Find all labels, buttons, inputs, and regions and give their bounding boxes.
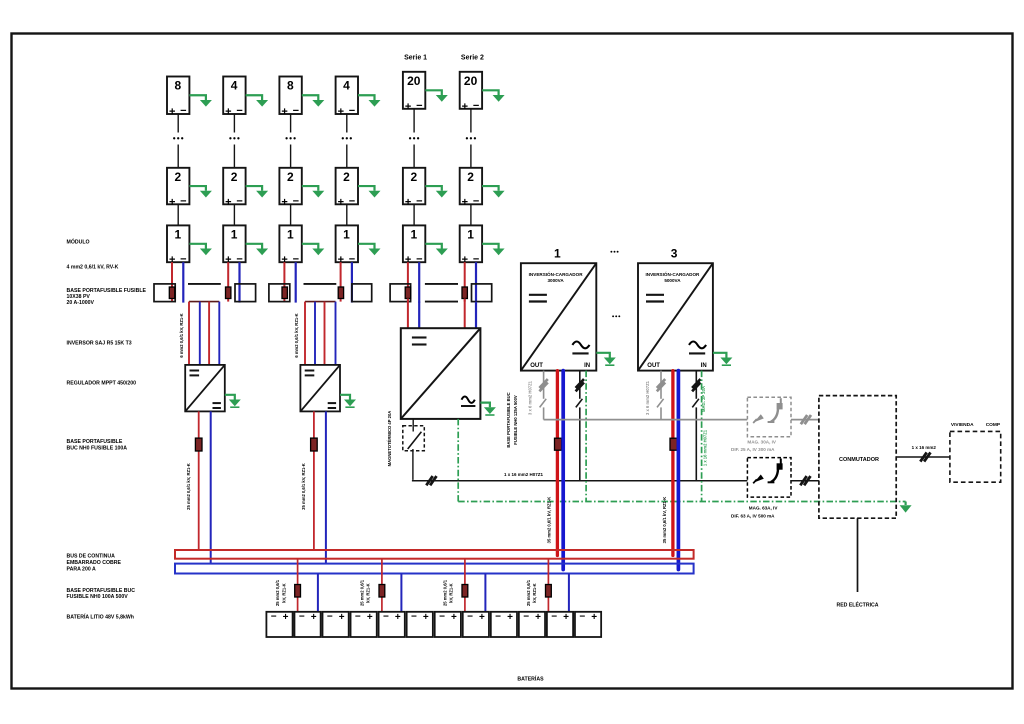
svg-text:+: +	[563, 612, 569, 623]
battery B12 (litio 48V)	[575, 612, 601, 637]
cable mark on AC line (left)	[426, 476, 436, 485]
ellipsis dots string 3	[285, 137, 295, 139]
ground arrow of module string3 #1	[302, 244, 325, 255]
wire positive (red) string 6 to fuse base	[464, 262, 466, 301]
svg-text:6 mm2 0,6/1 kV, RZ1-K: 6 mm2 0,6/1 kV, RZ1-K	[294, 313, 299, 357]
breaker glyph inside Q1 magnetotermico-diferencial (inverters)	[768, 398, 783, 422]
svg-text:+: +	[311, 612, 317, 623]
battery B4 (litio 48V)	[351, 612, 377, 637]
svg-text:4: 4	[343, 79, 350, 93]
svg-text:IN: IN	[584, 363, 590, 369]
svg-text:−: −	[271, 612, 277, 623]
svg-text:+: +	[338, 106, 344, 118]
svg-text:BASE PORTAFUSIBLE BUC: BASE PORTAFUSIBLE BUC	[506, 392, 511, 447]
svg-text:−: −	[439, 612, 445, 623]
svg-text:4: 4	[231, 79, 238, 93]
wire black line through breaker to conmutador	[791, 480, 819, 482]
wire bundle group 1 (6 mm2) to regulator	[189, 302, 219, 365]
battery positive wire 3	[464, 559, 466, 612]
svg-text:INVERSOR SAJ R5 15K T3: INVERSOR SAJ R5 15K T3	[67, 341, 132, 347]
svg-text:+: +	[423, 612, 429, 623]
battery B9 (litio 48V)	[491, 612, 517, 637]
svg-text:Serie 2: Serie 2	[461, 55, 484, 62]
wire dots-module2 string 5	[413, 145, 415, 168]
cable mark on AC in of U-IC1 inversor-cargador 1	[576, 379, 584, 391]
svg-text:MAGNETOTÉRMICO 4P 20A: MAGNETOTÉRMICO 4P 20A	[387, 411, 392, 467]
svg-text:−: −	[416, 196, 422, 208]
left label BUS DE CONTINUA	[67, 554, 122, 573]
PV module string5 top (20)	[403, 72, 425, 113]
ground arrow of module string3 #2	[302, 186, 325, 197]
U-IC1 inversor-cargador 1	[521, 263, 596, 370]
PV module string3 #2	[279, 168, 301, 209]
cable label 6 mm2 bundle 2	[294, 313, 299, 357]
svg-text:+: +	[169, 196, 175, 208]
battery negative wire 1	[317, 574, 319, 612]
svg-text:RED ELÉCTRICA: RED ELÉCTRICA	[836, 601, 878, 609]
svg-text:+: +	[451, 612, 457, 623]
wire conmutador to vivienda	[896, 456, 950, 458]
wire positive (red) string 1 to fuse base	[171, 262, 173, 301]
wire negative (blue) string 1	[182, 262, 184, 302]
left label BASE PORTAFUSIBLE BUC	[67, 588, 136, 600]
cable label 6 mm2 bundle 1	[179, 313, 184, 357]
svg-text:35 mm2 0,6/1 kV, RZ1-K: 35 mm2 0,6/1 kV, RZ1-K	[547, 497, 552, 544]
svg-text:+: +	[462, 196, 468, 208]
ground arrow of U-REG2 regulador MPPT 2	[340, 395, 356, 407]
svg-text:6 mm2 0,6/1 kV, RZ1-K: 6 mm2 0,6/1 kV, RZ1-K	[179, 313, 184, 357]
svg-text:+: +	[507, 612, 513, 623]
svg-text:REGULADOR MPPT 450/200: REGULADOR MPPT 450/200	[67, 380, 137, 386]
OUT terminal label of U-IC1 inversor-cargador 1	[530, 363, 543, 369]
designator 1 of U-IC1 inversor-cargador 1	[554, 246, 561, 260]
svg-text:−: −	[383, 612, 389, 623]
wire module string 5 row1-dots	[413, 109, 415, 133]
left label BATERIA LITIO 48V 5,8kWh	[67, 612, 134, 620]
fuse 10X38 PV of group 1 left string	[169, 287, 174, 299]
wire battery negative from U-REG1 regulador MPPT 1	[210, 411, 212, 563]
svg-text:FUSIBLE NH0 125A 500V: FUSIBLE NH0 125A 500V	[513, 395, 518, 445]
wire module string 3 row1-dots	[290, 114, 292, 133]
cable label 35 mm2 battery wires of U-IC3 inversor-cargador 3	[662, 497, 667, 544]
svg-text:BASE PORTAFUSIBLE FUSIBLE: BASE PORTAFUSIBLE FUSIBLE	[67, 288, 147, 294]
svg-text:−: −	[293, 196, 299, 208]
IN terminal label of U-IC1 inversor-cargador 1	[584, 363, 590, 369]
svg-text:−: −	[180, 105, 186, 117]
ground arrow of module string6 top (20)	[482, 90, 505, 101]
fuse base band group 3 (BASE PORTAFUSIBLE 10X38 PV)	[390, 284, 492, 302]
PV module string6 #2	[460, 168, 482, 209]
svg-text:1: 1	[467, 227, 474, 241]
contact arrow inside Q1 magnetotermico-diferencial (inverters)	[753, 414, 764, 423]
IN terminal label of U-IC3 inversor-cargador 3	[701, 363, 707, 369]
wire dots-module2 string 6	[470, 145, 472, 168]
wire dots-module2 string 1	[177, 145, 179, 168]
left label BASE PORTAFUSIBLE FUSIBLE	[67, 288, 147, 306]
Q2 magnetotermico-diferencial (red) (dashed box)	[747, 458, 791, 498]
ground arrow of module string1 top (8)	[189, 95, 212, 106]
battery fuse NH0 1	[295, 585, 301, 598]
PV module string2 top (4)	[223, 77, 245, 119]
svg-text:+: +	[338, 196, 344, 208]
svg-text:BATERÍA LITIO 48V 5,8kWh: BATERÍA LITIO 48V 5,8kWh	[67, 612, 134, 620]
battery B11 (litio 48V)	[547, 612, 573, 637]
svg-text:25 mm2 0,6/1: 25 mm2 0,6/1	[275, 579, 280, 606]
fuse base band group 1 (BASE PORTAFUSIBLE 10X38 PV)	[154, 284, 256, 302]
svg-text:PARA 200 A: PARA 200 A	[67, 566, 96, 572]
ground arrow of U-IC3 inversor-cargador 3	[713, 353, 733, 365]
cable label battery string 4	[526, 579, 537, 606]
wire negative (blue) string 5	[418, 262, 420, 302]
svg-text:MÓDULO: MÓDULO	[67, 237, 90, 245]
U-IC3 inversor-cargador 3	[638, 263, 713, 370]
svg-text:OUT: OUT	[530, 363, 543, 369]
fuse NH0 on positive of U-REG2 regulador MPPT 2	[311, 438, 318, 451]
cable mark gray before conmutador	[801, 415, 811, 424]
fuse 10X38 PV of group 2 left string	[282, 287, 287, 299]
cable label 3 x 6 mm2 of U-IC1 inversor-cargador 1	[528, 380, 533, 415]
Q1 magnetotermico-diferencial (inverters) (dashed box)	[747, 397, 791, 437]
wire positive (red) string 4 to fuse base	[340, 262, 342, 301]
svg-text:2: 2	[467, 170, 474, 184]
svg-text:2: 2	[343, 170, 350, 184]
svg-text:−: −	[327, 612, 333, 623]
svg-text:FUSIBLE NH0 100A 500V: FUSIBLE NH0 100A 500V	[67, 594, 129, 600]
fuse 10X38 PV of group 2 right string	[338, 287, 343, 299]
svg-text:+: +	[225, 196, 231, 208]
ground arrow of module string5 top (20)	[425, 90, 448, 101]
left label BASE PORTAFUSIBLE	[67, 439, 128, 451]
battery negative wire 2	[400, 574, 402, 612]
string title Serie 1	[404, 55, 427, 62]
PV module string1 #2	[167, 168, 189, 209]
wire module2-module1 string 6	[470, 204, 472, 225]
svg-text:+: +	[281, 106, 287, 118]
earth wire (green dash-dot) from inverter SAJ	[457, 419, 459, 502]
svg-text:25 mm2 0,6/1: 25 mm2 0,6/1	[359, 579, 364, 606]
svg-text:20: 20	[407, 74, 421, 88]
svg-text:−: −	[180, 196, 186, 208]
svg-text:+: +	[462, 101, 468, 113]
fuse NH0 125A on positive of U-IC1 inversor-cargador 1	[555, 438, 562, 450]
svg-text:IN: IN	[701, 363, 707, 369]
earth bus horizontal (green dash-dot)	[458, 501, 905, 503]
label BASE PORTAFUSIBLE BUC FUSIBLE NH0 125A 500V	[506, 392, 518, 447]
ground arrow of U-IC1 inversor-cargador 1	[596, 353, 616, 365]
svg-text:+: +	[405, 101, 411, 113]
svg-text:5000VA: 5000VA	[664, 278, 681, 283]
svg-text:BATERÍAS: BATERÍAS	[517, 675, 544, 683]
fuse 10X38 PV of group 3 right string	[462, 287, 467, 299]
wire negative (blue) string 3	[295, 262, 297, 302]
battery negative wire 3	[484, 574, 486, 612]
label text inside U-IC3 inversor-cargador 3	[646, 270, 701, 283]
svg-text:3000VA: 3000VA	[547, 278, 564, 283]
wire module2-module1 string 1	[177, 204, 179, 225]
ground arrow of module string4 #2	[358, 186, 381, 197]
battery B3 (litio 48V)	[323, 612, 349, 637]
wire serie2 red to inverter	[464, 299, 466, 329]
fuse 10X38 PV of group 3 left string	[405, 287, 410, 299]
battery fuse NH0 4	[546, 585, 552, 598]
PV module string6 #1	[460, 225, 482, 266]
wire to RED ELECTRICA (grid)	[857, 518, 859, 592]
svg-text:3: 3	[671, 246, 678, 260]
wire dots-module2 string 4	[346, 145, 348, 168]
svg-text:−: −	[495, 612, 501, 623]
OUT terminal label of U-IC3 inversor-cargador 3	[647, 363, 660, 369]
label VIVIENDA	[951, 422, 974, 428]
svg-text:DIF. 63 A, IV 500 mA: DIF. 63 A, IV 500 mA	[731, 513, 775, 518]
svg-text:−: −	[355, 612, 361, 623]
svg-text:−: −	[473, 100, 479, 112]
left label MODULO	[67, 237, 90, 245]
fuse NH0 on positive of U-REG1 regulador MPPT 1	[195, 438, 202, 451]
PV module string2 #1	[223, 225, 245, 266]
svg-text:INVERSIÓN-CARGADOR: INVERSIÓN-CARGADOR	[529, 270, 584, 277]
wire inverter AC out to breaker	[412, 419, 414, 432]
wire module2-module1 string 5	[413, 204, 415, 225]
svg-text:EMBARRADO COBRE: EMBARRADO COBRE	[67, 560, 122, 566]
wire module string 4 row1-dots	[346, 114, 348, 133]
fuse NH0 125A on positive of U-IC3 inversor-cargador 3	[670, 438, 677, 450]
battery positive wire 1	[297, 559, 299, 612]
wire battery positive from U-REG1 regulador MPPT 1	[198, 411, 200, 550]
svg-text:Serie 1: Serie 1	[404, 55, 427, 62]
negative DC busbar (copper, blue)	[175, 564, 694, 574]
ellipsis dots string 1	[173, 137, 183, 139]
battery B1 (litio 48V)	[266, 612, 292, 637]
ellipsis dots string 6	[466, 137, 476, 139]
ground arrow of module string2 #1	[246, 244, 269, 255]
svg-text:BUS DE CONTINUA: BUS DE CONTINUA	[67, 554, 116, 560]
wire battery positive from U-REG2 regulador MPPT 2	[313, 411, 315, 550]
wire gray bus through breaker to conmutador	[791, 419, 819, 421]
battery positive wire 4	[547, 559, 549, 612]
svg-text:+: +	[395, 612, 401, 623]
svg-text:+: +	[405, 196, 411, 208]
svg-text:2: 2	[410, 170, 417, 184]
ground arrow of module string3 top (8)	[302, 95, 325, 106]
svg-text:−: −	[551, 612, 557, 623]
wire serie2 blue to inverter	[475, 302, 477, 329]
svg-text:35 mm2 0,6/1 kV, RZ1-K: 35 mm2 0,6/1 kV, RZ1-K	[662, 497, 667, 544]
battery negative thick wire of U-IC3 inversor-cargador 3	[677, 371, 681, 570]
left label 4 mm2 0,6/1 kV, RV-K	[67, 264, 119, 270]
wire module string 6 row1-dots	[470, 109, 472, 133]
svg-text:3 x 6 mm2 H07Z1: 3 x 6 mm2 H07Z1	[528, 380, 533, 415]
ground arrow of module string1 #2	[189, 186, 212, 197]
wire positive (red) string 5 to fuse base	[407, 262, 409, 301]
wire module2-module1 string 3	[290, 204, 292, 225]
AC in wire (black) of U-IC1 inversor-cargador 1	[576, 371, 583, 481]
svg-text:1: 1	[231, 227, 238, 241]
svg-text:1: 1	[175, 227, 182, 241]
svg-text:20 A-1000V: 20 A-1000V	[67, 300, 95, 306]
svg-text:−: −	[416, 100, 422, 112]
battery B8 (litio 48V)	[463, 612, 489, 637]
svg-text:DIF. 25 A, IV 300 mA: DIF. 25 A, IV 300 mA	[731, 447, 775, 452]
left label REGULADOR MPPT 450/200	[67, 380, 137, 386]
cable mark on AC out of U-IC1 inversor-cargador 1	[539, 379, 547, 391]
svg-text:1: 1	[554, 246, 561, 260]
wire serie1 red to inverter	[407, 299, 409, 329]
positive DC busbar (copper, red)	[175, 550, 694, 559]
svg-text:4 mm2 0,6/1 kV, RV-K: 4 mm2 0,6/1 kV, RV-K	[67, 264, 119, 270]
battery positive thick wire of U-IC1 inversor-cargador 1	[556, 371, 559, 556]
ground arrow of U-REG1 regulador MPPT 1	[225, 395, 241, 407]
wire module2-module1 string 4	[346, 204, 348, 225]
PV module string6 top (20)	[460, 72, 482, 113]
ellipsis between inverter-chargers (middle)	[612, 315, 620, 317]
svg-text:−: −	[236, 105, 242, 117]
battery positive thick wire of U-IC3 inversor-cargador 3	[671, 371, 674, 556]
gray AC bus from inverter-chargers OUT	[544, 419, 748, 421]
svg-text:25 mm2 0,6/1 kV, RZ1-K: 25 mm2 0,6/1 kV, RZ1-K	[186, 463, 191, 510]
svg-text:+: +	[283, 612, 289, 623]
svg-text:+: +	[281, 196, 287, 208]
left label INVERSOR SAJ R5 15K T3	[67, 341, 132, 347]
svg-text:MAG. 2P 20A: MAG. 2P 20A	[701, 386, 706, 412]
svg-text:MAG. 30A, IV: MAG. 30A, IV	[747, 440, 777, 445]
svg-text:8: 8	[175, 79, 182, 93]
ground arrow of module string4 #1	[358, 244, 381, 255]
PV module string4 #2	[336, 168, 358, 209]
svg-text:2: 2	[287, 170, 294, 184]
svg-text:8: 8	[287, 79, 294, 93]
svg-text:+: +	[591, 612, 597, 623]
cable label 3 x 6 mm2 of U-IC3 inversor-cargador 3	[645, 380, 650, 415]
svg-text:2: 2	[231, 170, 238, 184]
ground arrow of module string4 top (4)	[358, 95, 381, 106]
label COMP	[986, 422, 1001, 428]
battery negative wire 4	[568, 574, 570, 612]
ellipsis dots string 4	[342, 137, 352, 139]
svg-text:−: −	[293, 105, 299, 117]
svg-text:2: 2	[175, 170, 182, 184]
svg-text:OUT: OUT	[647, 363, 660, 369]
ground arrow of module string6 #1	[482, 244, 505, 255]
svg-text:1 x 16 mm2: 1 x 16 mm2	[912, 445, 937, 450]
ellipsis dots string 5	[409, 137, 419, 139]
svg-text:VIVIENDA: VIVIENDA	[951, 422, 974, 428]
svg-text:+: +	[339, 612, 345, 623]
AC out wire (gray) of U-IC3 inversor-cargador 3	[657, 371, 664, 420]
label MAG. 63A IV / DIF. 63A	[731, 506, 778, 519]
ground arrow of module string1 #1	[189, 244, 212, 255]
PV module string4 top (4)	[336, 77, 358, 119]
svg-text:35 mm2 0,6/1 kV, RZ1-K: 35 mm2 0,6/1 kV, RZ1-K	[301, 463, 306, 510]
svg-text:−: −	[349, 196, 355, 208]
cable label 1 x 16 mm2	[912, 445, 937, 450]
U-REG1 regulador MPPT 1	[185, 365, 225, 412]
battery positive wire 2	[381, 559, 383, 612]
ground arrow of inverter SAJ	[480, 403, 496, 415]
svg-text:+: +	[535, 612, 541, 623]
svg-text:kV, RZ1-K: kV, RZ1-K	[532, 583, 537, 602]
label MAGNETOTERMICO 4P 20A	[387, 411, 392, 467]
label RED ELECTRICA	[836, 601, 878, 609]
breaker MAGNETOTERMICO 4P 20A (dashed box + switch)	[403, 426, 425, 451]
svg-text:CONMUTADOR: CONMUTADOR	[839, 457, 879, 463]
label MAG. 30A IV / DIF. 25A	[731, 440, 777, 453]
svg-text:1 x 16 mm2 H07Z1: 1 x 16 mm2 H07Z1	[703, 429, 708, 466]
svg-text:−: −	[473, 196, 479, 208]
PV module string2 #2	[223, 168, 245, 209]
svg-text:−: −	[467, 612, 473, 623]
battery B7 (litio 48V)	[435, 612, 461, 637]
cable label battery string 3	[442, 579, 453, 606]
svg-text:25 mm2 0,6/1: 25 mm2 0,6/1	[526, 579, 531, 606]
wire module2-module1 string 2	[233, 204, 235, 225]
ellipsis between inverter-chargers (top)	[610, 251, 618, 253]
svg-text:3 x 6 mm2 H07Z1: 3 x 6 mm2 H07Z1	[645, 380, 650, 415]
wire positive (red) string 2 to fuse base	[227, 262, 229, 301]
ellipsis dots string 2	[229, 137, 239, 139]
wire negative (blue) string 4	[351, 262, 353, 302]
svg-text:kV, RZ1-K: kV, RZ1-K	[449, 583, 454, 602]
VIVIENDA load (dashed box)	[950, 431, 1001, 482]
ground arrow of module string2 #2	[246, 186, 269, 197]
cable label 25 mm2 regulator 1 output	[186, 463, 191, 510]
wire dots-module2 string 3	[290, 145, 292, 168]
U-INV inversor SAJ R5 15K T3	[401, 328, 481, 419]
wire breaker down to AC line	[412, 449, 748, 481]
svg-text:+: +	[225, 106, 231, 118]
label BATERIAS	[517, 675, 544, 683]
AC out wire (gray) of U-IC1 inversor-cargador 1	[540, 371, 547, 420]
wire positive (red) string 3 to fuse base	[283, 262, 285, 301]
cable mark on AC in of U-IC3 inversor-cargador 3	[692, 379, 700, 391]
PV module string3 #1	[279, 225, 301, 266]
label MAG. 2P 20A (green)	[701, 386, 706, 412]
svg-text:+: +	[169, 106, 175, 118]
contact arrow inside Q2 magnetotermico-diferencial (red)	[753, 475, 764, 484]
wire serie1 blue to inverter	[418, 302, 420, 329]
cable mark black before conmutador	[800, 476, 810, 485]
battery B2 (litio 48V)	[294, 612, 320, 637]
wire negative (blue) string 2	[238, 262, 240, 302]
svg-text:−: −	[579, 612, 585, 623]
battery fuse NH0 2	[379, 585, 385, 598]
svg-text:BUC NH0 FUSIBLE 100A: BUC NH0 FUSIBLE 100A	[67, 445, 128, 451]
battery B5 (litio 48V)	[379, 612, 405, 637]
battery B10 (litio 48V)	[519, 612, 545, 637]
ground arrow of module string2 top (4)	[246, 95, 269, 106]
svg-text:+: +	[367, 612, 373, 623]
battery B6 (litio 48V)	[407, 612, 433, 637]
PV module string5 #1	[403, 225, 425, 266]
svg-text:1 x 16 mm2 H07Z1: 1 x 16 mm2 H07Z1	[504, 472, 544, 477]
wire module string 2 row1-dots	[233, 114, 235, 133]
PV module string1 top (8)	[167, 77, 189, 119]
svg-text:1: 1	[410, 227, 417, 241]
PV module string5 #2	[403, 168, 425, 209]
svg-text:1: 1	[343, 227, 350, 241]
svg-text:20: 20	[464, 74, 478, 88]
earth wire (green) of U-IC3 inversor-cargador 3	[701, 371, 703, 502]
wire battery negative from U-REG2 regulador MPPT 2	[325, 411, 327, 563]
cable mark conmutador-vivienda	[920, 452, 930, 461]
svg-text:−: −	[299, 612, 305, 623]
svg-text:−: −	[349, 105, 355, 117]
fuse 10X38 PV of group 1 right string	[226, 287, 231, 299]
PV module string4 #1	[336, 225, 358, 266]
label text inside U-IC1 inversor-cargador 1	[529, 270, 584, 283]
cable label 35 mm2 battery wires of U-IC1 inversor-cargador 1	[547, 497, 552, 544]
svg-text:MAG. 63A, IV: MAG. 63A, IV	[749, 506, 779, 511]
breaker glyph inside Q2 magnetotermico-diferencial (red)	[768, 459, 783, 483]
